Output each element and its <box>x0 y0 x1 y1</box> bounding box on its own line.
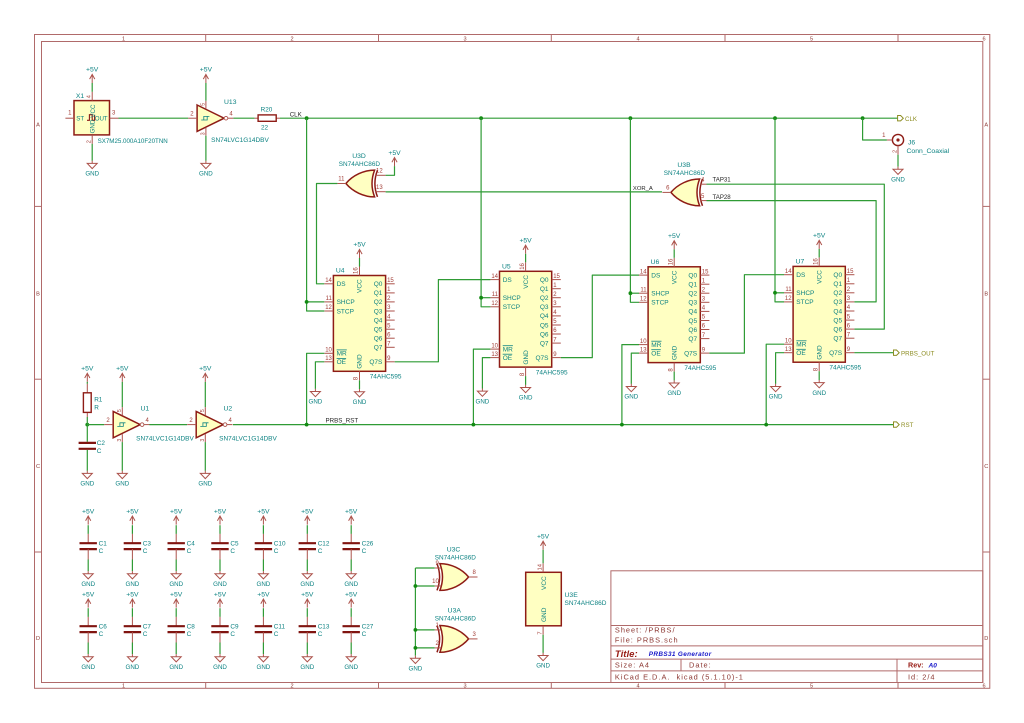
U3A input pin 1 <box>435 629 442 631</box>
svg-text:GND: GND <box>169 581 183 588</box>
ground U6 pin8 <box>669 380 679 388</box>
wire C12 to ground <box>306 549 308 559</box>
ground U7 OE <box>771 384 781 392</box>
svg-text:GND: GND <box>357 354 364 369</box>
svg-text:+5V: +5V <box>116 366 129 373</box>
svg-text:+5V: +5V <box>257 591 270 598</box>
svg-text:12: 12 <box>376 168 383 174</box>
U3A input pin 2 <box>435 647 442 649</box>
U4 pin 3 Q3 <box>386 310 395 312</box>
wire U4 OE to ground <box>315 362 324 389</box>
U7 pin 12 STCP <box>784 301 793 303</box>
svg-text:GND: GND <box>769 394 783 401</box>
svg-text:C11: C11 <box>274 623 286 630</box>
svg-text:VCC: VCC <box>671 270 678 284</box>
power +5V C10 <box>261 516 266 525</box>
U6 pin 1 Q1 <box>700 283 709 285</box>
svg-text:XOR_A: XOR_A <box>633 186 653 192</box>
svg-text:+5V: +5V <box>345 591 358 598</box>
svg-text:A: A <box>36 123 40 129</box>
wire U7 MR to PRBS_RST <box>766 344 784 424</box>
svg-text:C9: C9 <box>230 623 239 630</box>
svg-text:Q1: Q1 <box>540 286 549 293</box>
wire U5 GND pin8 <box>525 376 527 385</box>
power +5V X1 <box>90 74 95 83</box>
svg-text:5: 5 <box>117 409 123 412</box>
U3B output pin 6 <box>662 191 671 193</box>
U3D input pin 13 <box>375 191 386 193</box>
ground U1 <box>117 471 127 479</box>
svg-text:C: C <box>362 548 367 555</box>
junction U6 SHCP <box>629 291 633 295</box>
U6 pin 6 Q6 <box>700 329 709 331</box>
shift register U5 74AHC595 <box>500 271 552 367</box>
schmitt inverter U2 SN74LVC1G14DBV <box>196 411 223 437</box>
junction CLK J6 <box>861 116 865 120</box>
svg-text:C: C <box>230 631 235 638</box>
svg-text:11: 11 <box>326 296 333 302</box>
U4 pin 4 Q4 <box>386 319 395 321</box>
svg-text:SN74LVC1G14DBV: SN74LVC1G14DBV <box>219 435 277 442</box>
svg-text:13: 13 <box>491 352 498 358</box>
svg-text:J6: J6 <box>908 139 915 146</box>
capacitor C4 <box>175 525 177 534</box>
svg-text:B: B <box>984 291 988 297</box>
svg-text:PRBS31 Generator: PRBS31 Generator <box>649 651 712 658</box>
U4 pin 2 Q2 <box>386 301 395 303</box>
svg-text:+5V: +5V <box>353 242 366 249</box>
wire C13 to ground <box>306 632 308 642</box>
U5 pin 16 VCC <box>525 262 527 271</box>
wire U4 MR to PRBS_RST <box>307 353 325 424</box>
junction PRBS_RST U6 <box>620 423 624 427</box>
power +5V U6 <box>672 241 677 250</box>
svg-text:+5V: +5V <box>200 67 213 74</box>
svg-text:PRBS_RST: PRBS_RST <box>326 418 359 425</box>
wire U1 output to U2 input <box>149 424 187 426</box>
ground C10 <box>258 571 268 579</box>
power +5V C4 <box>174 516 179 525</box>
svg-text:GND: GND <box>169 664 183 671</box>
U1 input pin 2 <box>104 424 113 426</box>
svg-text:5: 5 <box>810 37 813 43</box>
svg-text:GND: GND <box>257 581 271 588</box>
hierarchical label PRBS_OUT <box>894 350 900 355</box>
svg-text:Q7: Q7 <box>540 340 549 347</box>
ground X1 <box>87 161 97 169</box>
U4 pin 16 VCC <box>359 267 361 276</box>
ground C2 <box>82 471 92 479</box>
U6 pin 12 STCP <box>639 301 648 303</box>
U6 pin 11 SHCP <box>639 292 648 294</box>
svg-text:MR: MR <box>337 351 347 358</box>
U4 pin 9 Q7S <box>386 361 395 363</box>
svg-text:SN74AHC86D: SN74AHC86D <box>435 554 477 561</box>
svg-text:SN74AHC86D: SN74AHC86D <box>565 600 607 607</box>
svg-text:GND: GND <box>671 345 678 360</box>
svg-text:MR: MR <box>503 346 513 353</box>
svg-text:14: 14 <box>640 269 647 275</box>
junction U3C pin10 <box>414 584 418 588</box>
U6 pin 10 MR <box>639 344 648 346</box>
svg-text:U13: U13 <box>224 99 237 106</box>
U5 pin 11 SHCP <box>490 297 499 299</box>
svg-text:Q7S: Q7S <box>684 350 698 357</box>
J6 pin 2 <box>897 146 899 155</box>
wire C8 to ground <box>175 632 177 642</box>
svg-text:C6: C6 <box>99 623 108 630</box>
U3D input pin 12 <box>375 174 386 176</box>
svg-text:U6: U6 <box>651 259 660 266</box>
svg-text:VCC: VCC <box>523 275 530 289</box>
ground U3C U3A <box>410 656 420 664</box>
U4 pin 14 DS <box>324 283 333 285</box>
svg-text:+5V: +5V <box>170 591 183 598</box>
shift register U4 74AHC595 <box>333 276 385 372</box>
junction PRBS_RST U4 <box>305 423 309 427</box>
U3C input pin 10 <box>435 585 442 587</box>
ground C7 <box>127 654 137 662</box>
junction CLK U5 <box>479 116 483 120</box>
svg-text:C: C <box>318 631 323 638</box>
svg-text:+5V: +5V <box>519 238 532 245</box>
svg-text:3: 3 <box>117 439 123 442</box>
U5 pin 6 Q6 <box>552 333 561 335</box>
svg-text:Q6: Q6 <box>540 331 549 338</box>
ground U7 pin8 <box>814 380 824 388</box>
U5 pin 5 Q5 <box>552 324 561 326</box>
svg-text:GND: GND <box>85 171 99 178</box>
svg-text:SN74AHC86D: SN74AHC86D <box>435 616 477 623</box>
U3C input pin 9 <box>435 567 442 569</box>
junction U3A pin1 <box>414 628 418 632</box>
U5 pin 4 Q4 <box>552 315 561 317</box>
svg-text:Q4: Q4 <box>688 309 697 316</box>
wire J6 GND <box>897 155 899 167</box>
ground C9 <box>215 654 225 662</box>
wire U13 output to R20 <box>233 117 254 119</box>
xor gate U3A SN74AHC86D <box>437 626 469 653</box>
svg-text:+5V: +5V <box>81 366 94 373</box>
wire PRBS_RST <box>233 424 894 426</box>
U7 pin 13 OE <box>784 352 793 354</box>
svg-text:+5V: +5V <box>301 591 314 598</box>
wire X1 GND <box>91 144 93 161</box>
svg-text:C: C <box>187 548 192 555</box>
U5 pin 8 GND <box>525 367 527 376</box>
svg-text:GND: GND <box>199 171 213 178</box>
U3A output pin 3 <box>469 638 478 640</box>
wire U7 VCC <box>818 249 820 258</box>
svg-text:U3C: U3C <box>447 546 461 553</box>
svg-text:GND: GND <box>519 395 533 402</box>
U13 VCC pin 5 <box>205 101 207 109</box>
ground U2 <box>200 471 210 479</box>
wire U13 VCC <box>205 83 207 101</box>
hierarchical label RST <box>894 422 900 427</box>
capacitor C6 <box>87 608 89 617</box>
svg-text:C: C <box>318 548 323 555</box>
svg-text:GND: GND <box>198 481 212 488</box>
svg-text:2: 2 <box>87 140 93 143</box>
U5 pin 3 Q3 <box>552 306 561 308</box>
svg-text:C26: C26 <box>362 540 374 547</box>
X1 pin 1 ST <box>65 117 74 119</box>
connector J6 Conn_Coaxial <box>892 134 903 145</box>
U5 pin 12 STCP <box>490 306 499 308</box>
wire C11 to ground <box>262 632 264 642</box>
svg-text:+5V: +5V <box>214 508 227 515</box>
svg-text:6: 6 <box>982 37 985 43</box>
capacitor C5 <box>219 525 221 534</box>
U4 pin 8 GND <box>359 371 361 380</box>
svg-text:Title:: Title: <box>615 649 638 660</box>
wire U7 OE to ground <box>776 353 784 384</box>
wire U6 GND pin8 <box>673 372 675 381</box>
svg-text:Q0: Q0 <box>688 272 697 279</box>
svg-text:DS: DS <box>337 281 347 288</box>
wire C5 to ground <box>219 549 221 559</box>
U7 pin 3 Q3 <box>845 301 854 303</box>
svg-text:Q7: Q7 <box>833 336 842 343</box>
svg-text:13: 13 <box>785 347 792 353</box>
svg-text:DS: DS <box>796 272 806 279</box>
svg-text:OE: OE <box>337 359 347 366</box>
junction CLK U7 <box>773 116 777 120</box>
svg-text:C3: C3 <box>143 540 152 547</box>
ground C6 <box>83 654 93 662</box>
svg-text:2: 2 <box>893 150 899 153</box>
svg-text:3: 3 <box>463 684 466 690</box>
svg-text:C27: C27 <box>362 623 374 630</box>
ground U6 OE <box>626 384 636 392</box>
svg-text:U7: U7 <box>796 259 805 266</box>
wire CLK drop to U7 SHCP/STCP <box>775 118 784 302</box>
svg-text:11: 11 <box>640 287 647 293</box>
svg-text:GND: GND <box>300 581 314 588</box>
U5 pin 2 Q2 <box>552 297 561 299</box>
svg-text:SN74LVC1G14DBV: SN74LVC1G14DBV <box>211 137 269 144</box>
svg-text:+5V: +5V <box>170 508 183 515</box>
wire CLK drop to U6 SHCP/STCP <box>630 118 639 302</box>
svg-text:Q6: Q6 <box>833 326 842 333</box>
svg-text:Q2: Q2 <box>833 290 842 297</box>
U4 pin 12 STCP <box>324 310 333 312</box>
svg-text:13: 13 <box>376 185 383 191</box>
svg-text:TAP31: TAP31 <box>713 177 732 184</box>
svg-text:C13: C13 <box>318 623 330 630</box>
svg-text:VCC: VCC <box>357 279 364 293</box>
U3D output pin 11 <box>337 183 346 185</box>
power +5V U1 <box>120 373 125 382</box>
svg-text:GND: GND <box>309 399 323 406</box>
svg-text:15: 15 <box>387 278 394 284</box>
wire U3C U3A inputs to ground <box>414 568 416 656</box>
wire U3E VCC <box>542 550 544 564</box>
svg-text:C: C <box>97 448 102 455</box>
svg-text:SHCP: SHCP <box>503 295 521 302</box>
power +5V R1 <box>85 373 90 382</box>
svg-text:C12: C12 <box>318 540 330 547</box>
wire U6 Q7S to U7 DS <box>709 275 784 353</box>
U7 pin 5 Q5 <box>845 319 854 321</box>
power +5V U5 <box>523 245 528 254</box>
svg-text:OE: OE <box>796 350 806 357</box>
power +5V U2 <box>203 373 208 382</box>
svg-text:TAP28: TAP28 <box>713 194 732 201</box>
svg-text:14: 14 <box>325 278 332 284</box>
U3E pin 7 GND <box>542 626 544 635</box>
svg-text:Q4: Q4 <box>540 313 549 320</box>
hierarchical label CLK <box>898 116 904 121</box>
svg-text:2: 2 <box>290 37 293 43</box>
svg-text:C2: C2 <box>97 440 106 447</box>
U1 GND pin 3 <box>121 434 123 442</box>
svg-text:B: B <box>36 291 40 297</box>
U4 pin 5 Q5 <box>386 328 395 330</box>
wire CLK bus <box>280 117 898 119</box>
wire junction to U1 input <box>87 424 104 426</box>
svg-text:+5V: +5V <box>813 233 826 240</box>
ground J6 <box>893 167 903 175</box>
U6 pin 3 Q3 <box>700 301 709 303</box>
junction CLK U4 <box>305 116 309 120</box>
svg-text:16: 16 <box>520 262 526 269</box>
U13 GND pin 3 <box>205 128 207 136</box>
wire U7 Q7S to PRBS_OUT <box>854 352 893 354</box>
power +5V C7 <box>130 599 135 608</box>
svg-text:16: 16 <box>354 267 360 274</box>
wire U1 GND <box>121 442 123 471</box>
svg-text:X1: X1 <box>76 93 85 100</box>
svg-text:+5V: +5V <box>537 534 550 541</box>
U4 pin 1 Q1 <box>386 292 395 294</box>
junction U3A pin2 <box>414 646 418 650</box>
svg-text:GND: GND <box>126 581 140 588</box>
svg-text:U1: U1 <box>141 405 150 412</box>
capacitor C10 <box>262 525 264 534</box>
ground C12 <box>302 571 312 579</box>
U4 pin 6 Q6 <box>386 337 395 339</box>
svg-text:+5V: +5V <box>199 366 212 373</box>
U3B input pin 4 <box>700 183 707 185</box>
svg-text:74AHC595: 74AHC595 <box>684 365 716 372</box>
svg-text:13: 13 <box>640 347 647 353</box>
svg-text:4: 4 <box>87 95 93 98</box>
svg-text:Q7: Q7 <box>374 345 383 352</box>
svg-text:10: 10 <box>432 579 439 585</box>
svg-text:OE: OE <box>503 355 513 362</box>
wire C2 to ground <box>86 450 88 471</box>
wire U1 VCC <box>121 382 123 407</box>
ground U4 OE <box>310 389 320 397</box>
svg-text:C10: C10 <box>274 540 286 547</box>
U4 pin 13 OE <box>324 361 333 363</box>
capacitor C7 <box>131 608 133 617</box>
power +5V C3 <box>130 516 135 525</box>
wire C3 to ground <box>131 549 133 559</box>
capacitor C27 <box>350 608 352 617</box>
svg-text:A: A <box>984 123 988 129</box>
svg-text:Conn_Coaxial: Conn_Coaxial <box>907 148 950 155</box>
svg-text:5: 5 <box>200 409 206 412</box>
U5 pin 9 Q7S <box>552 357 561 359</box>
svg-text:Q5: Q5 <box>540 322 549 329</box>
xor gate U3C SN74AHC86D <box>437 564 469 591</box>
svg-text:STCP: STCP <box>651 300 668 307</box>
svg-text:GND: GND <box>667 390 681 397</box>
capacitor C9 <box>219 608 221 617</box>
svg-text:C7: C7 <box>143 623 152 630</box>
svg-text:15: 15 <box>702 269 709 275</box>
svg-text:GND: GND <box>257 664 271 671</box>
svg-text:RST: RST <box>901 422 914 429</box>
U2 output pin 4 <box>227 424 233 426</box>
svg-text:U3E: U3E <box>565 592 579 599</box>
ground C13 <box>302 654 312 662</box>
svg-text:14: 14 <box>491 274 498 280</box>
U4 pin 15 Q0 <box>386 283 395 285</box>
svg-text:GND: GND <box>115 481 129 488</box>
svg-text:Q2: Q2 <box>540 295 549 302</box>
U7 pin 4 Q4 <box>845 310 854 312</box>
svg-text:Q4: Q4 <box>833 308 842 315</box>
svg-text:GND: GND <box>126 664 140 671</box>
capacitor C13 <box>306 608 308 617</box>
U4 pin 7 Q7 <box>386 346 395 348</box>
svg-text:11: 11 <box>785 287 792 293</box>
svg-text:Q1: Q1 <box>833 281 842 288</box>
svg-text:GND: GND <box>90 119 97 133</box>
wire CLK drop to U5 SHCP/STCP <box>481 118 490 307</box>
svg-text:File: PRBS.sch: File: PRBS.sch <box>615 635 679 644</box>
svg-text:Q1: Q1 <box>374 290 383 297</box>
svg-text:14: 14 <box>537 563 543 570</box>
svg-text:12: 12 <box>785 296 792 302</box>
svg-text:15: 15 <box>847 269 854 275</box>
ground U5 OE <box>477 389 487 397</box>
wire U13 GND <box>205 136 207 161</box>
svg-text:GND: GND <box>353 399 367 406</box>
wire U3E GND <box>542 635 544 653</box>
svg-text:15: 15 <box>553 274 560 280</box>
svg-text:74AHC595: 74AHC595 <box>370 374 402 381</box>
wire U4 VCC <box>359 258 361 267</box>
svg-text:GND: GND <box>624 394 638 401</box>
ground U5 pin8 <box>521 385 531 393</box>
svg-text:1: 1 <box>122 684 125 690</box>
svg-text:GND: GND <box>476 398 490 405</box>
shift register U6 74AHC595 <box>648 267 700 363</box>
capacitor C12 <box>306 525 308 534</box>
wire C10 to ground <box>262 549 264 559</box>
svg-text:SN74LVC1G14DBV: SN74LVC1G14DBV <box>136 435 194 442</box>
svg-text:A0: A0 <box>928 663 938 670</box>
U6 pin 13 OE <box>639 352 648 354</box>
svg-text:C: C <box>143 631 148 638</box>
xor gate U3D SN74AHC86D <box>346 170 378 197</box>
svg-text:U3D: U3D <box>352 153 366 160</box>
svg-text:Q5: Q5 <box>374 327 383 334</box>
U6 pin 16 VCC <box>673 258 675 267</box>
svg-text:10: 10 <box>491 343 498 349</box>
U4 pin 11 SHCP <box>324 301 333 303</box>
wire XOR_A U3D pin13 to U3B output <box>386 191 662 193</box>
U7 pin 7 Q7 <box>845 337 854 339</box>
junction U7 SHCP <box>773 291 777 295</box>
svg-text:CLK: CLK <box>290 111 303 118</box>
U4 pin 10 MR <box>324 352 333 354</box>
